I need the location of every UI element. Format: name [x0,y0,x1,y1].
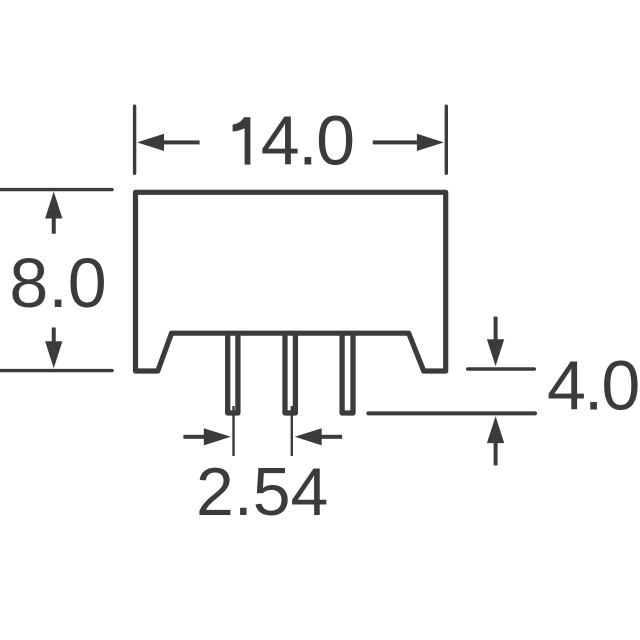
package body outline [136,192,446,371]
svg-text:4.0: 4.0 [547,347,638,425]
dim 8.0 bottom extension line [0,369,112,372]
dim 4.0 bottom reference line [368,411,535,415]
dim 2.54 left arrow [183,428,230,445]
svg-text:2.54: 2.54 [196,454,328,530]
pin 2 [285,335,295,413]
pin 1 center line [232,406,234,456]
dim 2.54 right arrow [295,428,342,445]
dim 14.0 right extension line [445,106,448,173]
dim 4.0 down arrow [487,317,504,367]
pin 2 center line [291,406,293,456]
dim 14.0 left arrow [137,134,200,151]
dim 14.0 left extension line [133,106,136,173]
dim 4.0 top reference line [468,367,534,371]
dim 8.0 top extension line [0,188,112,191]
svg-text:4.0: 4.0 [261,102,354,180]
pin 1 [228,335,238,413]
dim 8.0 up arrow [45,192,62,234]
dim 14.0 right arrow [373,134,444,151]
dim 14.0 label digit 1 [233,117,251,164]
dim 4.0 up arrow [487,416,504,465]
pin 3 [342,335,353,413]
dim 8.0 down arrow [45,328,62,369]
svg-text:8.0: 8.0 [9,244,106,322]
